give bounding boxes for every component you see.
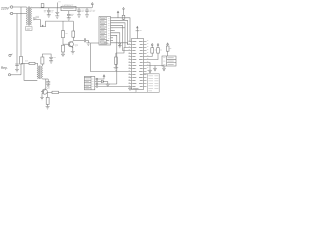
- wire J3 pin4: [98, 86, 129, 88]
- connector J1 terminal 1: [10, 6, 13, 8]
- capacitor C4: [77, 8, 81, 15]
- MCU pin numbers right: [147, 41, 148, 71]
- wire Q2 base left: [41, 91, 44, 93]
- wire J1-2 to transformer: [13, 13, 27, 15]
- resistor R2 base upper: [62, 31, 65, 45]
- ground for C8: [15, 70, 19, 73]
- svg-text:Q1: Q1: [75, 44, 79, 47]
- svg-text:D2: D2: [25, 61, 29, 63]
- label U2: [63, 5, 74, 7]
- module box LCD: [136, 74, 159, 93]
- label D1: [44, 11, 47, 12]
- MCU bottom label: [133, 88, 139, 90]
- ground for R7: [46, 107, 50, 109]
- ground for D4: [106, 82, 110, 87]
- capacitor C9: [49, 58, 53, 61]
- label secondary: [36, 16, 40, 17]
- VCC arrow J3: [98, 75, 105, 79]
- ground for R10: [114, 68, 119, 71]
- wire return branch: [24, 63, 37, 80]
- connector J2: [99, 17, 111, 46]
- resistor R1 collector: [72, 31, 75, 40]
- regulator U2 7805: [61, 6, 76, 10]
- resistor R10: [115, 53, 118, 67]
- wire J2 pin11 to MCU: [113, 43, 129, 45]
- MCU pin numbers left: [129, 41, 130, 86]
- transistor Q2: [42, 89, 52, 97]
- wire Q2 collector up: [45, 79, 47, 89]
- ground Q2 emitter: [40, 98, 44, 100]
- label C4: [81, 10, 84, 11]
- node collector: [73, 39, 84, 41]
- ground for C5: [85, 15, 89, 17]
- MCU power pin VDD: [136, 26, 142, 38]
- capacitor C10: [46, 79, 50, 84]
- module inner edge: [146, 74, 148, 93]
- label +5V: [93, 10, 96, 11]
- wire down from top line (x21): [20, 7, 22, 57]
- MCU pin stubs left: [129, 42, 132, 87]
- module text rows: [148, 76, 158, 91]
- ground for C1: [47, 15, 51, 17]
- VCC arrow R13: [167, 43, 169, 45]
- ground for C2: [55, 16, 59, 18]
- ground for C7: [86, 40, 90, 45]
- label R11 R12: [155, 49, 172, 51]
- label D2: [25, 61, 29, 63]
- label Rep: [1, 66, 8, 70]
- VCC arrow A (x118): [117, 11, 119, 18]
- relay coil RL1: [37, 66, 42, 80]
- wire branch secondary bottom: [63, 21, 73, 31]
- label 220V: [1, 6, 10, 10]
- VCC arrow R12: [157, 44, 159, 46]
- wire bottom left: [11, 74, 21, 76]
- svg-text:Rep.: Rep.: [1, 66, 8, 70]
- label box TR1: [26, 27, 32, 31]
- J2 pin stubs: [111, 18, 114, 43]
- MCU U1: [132, 39, 144, 90]
- resistor R7 emitter: [46, 92, 49, 106]
- transistor Q1: [68, 41, 73, 52]
- node secondary tap: [33, 18, 37, 21]
- wire J3 pin3: [98, 83, 117, 85]
- wire J2 pin6: [113, 29, 115, 31]
- capacitor C2: [55, 8, 59, 16]
- capacitor C3: [67, 11, 71, 18]
- ground for D3: [118, 46, 122, 48]
- resistor R9 pullup: [122, 15, 125, 20]
- ground a: [149, 70, 152, 73]
- wire stub up: [58, 2, 61, 8]
- resistor R3 base lower: [62, 44, 65, 54]
- label C1: [51, 11, 53, 12]
- ground c: [163, 66, 166, 71]
- label inside U2: [63, 8, 74, 10]
- resistor R5: [41, 57, 44, 64]
- resistor R11: [147, 45, 154, 56]
- wire down-around to MCU: [91, 43, 129, 72]
- wire J2 pin8 down: [113, 35, 117, 84]
- wire J2 pin3 to MCU: [113, 23, 125, 48]
- wire R10 top to MCU: [116, 48, 129, 54]
- VCC arrow +5V: [91, 3, 93, 8]
- ground for C10: [46, 85, 50, 87]
- diode D4: [98, 80, 108, 83]
- wire base: [63, 43, 70, 45]
- connector J1 terminal 2: [10, 12, 13, 14]
- svg-text:LM7805CT: LM7805CT: [63, 5, 74, 7]
- fuse F1: [40, 4, 44, 9]
- ground for C4: [77, 15, 81, 17]
- capacitor C8 (x17): [15, 64, 19, 69]
- J3 pin circles: [95, 78, 98, 87]
- resistor R6 horizontal: [52, 91, 59, 93]
- wire J2 pin7 down: [113, 33, 120, 43]
- VCC arrow R11: [151, 44, 153, 46]
- wire secondary top rail: [31, 7, 92, 9]
- ground for Q1 emitter: [71, 52, 75, 55]
- MCU pin names right column: [139, 42, 143, 87]
- VCC arrow R9: [123, 8, 125, 16]
- ground for C3: [67, 18, 71, 20]
- capacitor C1: [47, 8, 51, 15]
- wire secondary bottom rail: [34, 20, 74, 27]
- connector J3: [84, 76, 94, 89]
- wire down from bottom line (x17): [16, 14, 18, 67]
- wire coil to Q2: [42, 78, 48, 80]
- label Q1: [75, 44, 79, 47]
- label C3: [71, 14, 74, 15]
- resistor R13: [166, 45, 169, 56]
- label R2: [65, 33, 67, 35]
- diode D3 to ground: [119, 43, 121, 45]
- IC2 box: [162, 56, 176, 66]
- label C5: [89, 10, 92, 11]
- wire coil top right: [41, 64, 43, 66]
- label C9: [54, 57, 56, 59]
- wire J2 pin4 to MCU: [113, 25, 129, 50]
- ground b: [154, 66, 157, 71]
- ground MCU pin1: [128, 87, 132, 91]
- svg-text:220V: 220V: [1, 6, 10, 10]
- diode D5 small: [42, 25, 43, 27]
- wire MCU gnd b: [147, 65, 165, 67]
- wire J2 pin2 to MCU: [113, 20, 128, 44]
- long wire to module: [59, 91, 137, 93]
- wire R5 top: [42, 54, 51, 57]
- label Q2: [47, 86, 51, 89]
- ground for R3: [61, 54, 65, 56]
- resistor R4 (x21): [20, 57, 23, 75]
- MCU pin stubs right: [144, 42, 147, 87]
- capacitor C5: [85, 8, 89, 15]
- resistor R12: [147, 45, 160, 59]
- terminal circle sensor bottom: [8, 74, 10, 76]
- wire J2 pin1 to MCU: [113, 18, 130, 42]
- terminal circle sensor top: [9, 54, 13, 57]
- capacitor C7 output: [84, 38, 88, 42]
- wire J1-1 to transformer: [13, 6, 27, 8]
- transformer TR1: [26, 7, 31, 26]
- wire MCU gnd a: [147, 63, 151, 71]
- MCU pin names left column: [132, 42, 136, 87]
- ground for C9: [49, 61, 53, 63]
- wire J2 pin5: [113, 27, 125, 29]
- svg-text:Q2: Q2: [47, 86, 51, 89]
- diode D2: [21, 62, 38, 66]
- wire J2 pin11 left: [91, 42, 100, 44]
